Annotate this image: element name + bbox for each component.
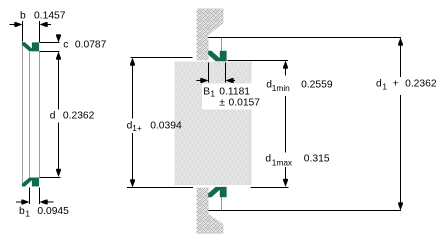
label d1+ 0.0394 [127, 120, 182, 133]
svg-text:0.2559: 0.2559 [301, 80, 333, 91]
dimension line d1 (right, vertical) [398, 38, 403, 46]
svg-text:±: ± [219, 97, 225, 108]
label d1min 0.2559 [266, 80, 333, 94]
label d1max 0.315 [265, 154, 329, 168]
svg-text:+: + [393, 79, 399, 90]
svg-text:1max: 1max [272, 157, 293, 167]
svg-text:0.0945: 0.0945 [37, 206, 69, 217]
dimension line b, left arrow [10, 22, 23, 27]
svg-text:0.2362: 0.2362 [405, 79, 437, 90]
dimension d arrow (points down) [56, 169, 61, 177]
bore line bottom (gray) [221, 198, 223, 211]
svg-text:0.0394: 0.0394 [150, 120, 182, 131]
label c 0.0787 [63, 40, 106, 51]
svg-text:0.0787: 0.0787 [75, 40, 107, 51]
bore line top (gray) [221, 38, 223, 51]
svg-text:B: B [203, 86, 210, 97]
extension line b right [39, 21, 41, 42]
housing bar top (stippled) [197, 9, 224, 61]
svg-text:1+: 1+ [132, 123, 142, 133]
B1 right arrow [226, 78, 236, 83]
B1 left arrow [196, 78, 208, 83]
dimension b1 right arrow [40, 200, 54, 205]
bottom seal (green) installed [208, 187, 226, 197]
svg-text:b: b [20, 11, 26, 22]
extension line d1 bottom [209, 210, 402, 212]
dimension c extension lines [40, 42, 60, 44]
svg-text:0.315: 0.315 [304, 154, 330, 165]
bottom seal cross-section (green, mirrored) [22, 178, 39, 187]
label d 0.2362 [50, 111, 95, 122]
housing bar bottom (stippled) [197, 188, 224, 234]
extension line d1max [251, 187, 289, 189]
label d1 + 0.2362 [376, 79, 437, 92]
label plus-minus 0.0157 [219, 97, 260, 108]
extension line d bottom [40, 177, 61, 179]
shaft cross-section block [175, 62, 252, 186]
white backing for B1 labels [202, 84, 261, 110]
dimension line d1min/d1max (vertical) [283, 61, 288, 69]
label b 0.1457 [20, 11, 66, 22]
svg-text:0.1457: 0.1457 [34, 11, 66, 22]
top seal cross-section (green) [22, 42, 39, 51]
svg-text:1: 1 [382, 82, 387, 92]
label B1 0.1181 [203, 86, 250, 98]
svg-text:1min: 1min [272, 83, 290, 93]
dimension line b, right arrow [40, 22, 52, 27]
extension line left top [131, 57, 193, 59]
seal ring outline lines (gray) [23, 45, 40, 184]
extension line d1min [228, 60, 289, 62]
svg-text:d: d [265, 154, 271, 165]
dimension c arrow top (points down) [56, 34, 61, 42]
svg-text:0.1181: 0.1181 [219, 86, 250, 97]
dimension line d1+0.0394 (left, vertical) [130, 58, 135, 66]
dimension c arrow bottom (points up) [56, 52, 61, 60]
svg-text:c: c [63, 40, 68, 51]
svg-text:1: 1 [25, 208, 30, 218]
svg-text:d: d [50, 111, 56, 122]
svg-text:d: d [376, 79, 382, 90]
extension line left bottom [127, 187, 193, 189]
label b1 0.0945 [19, 206, 69, 218]
extension line b left [22, 21, 24, 42]
B1 extension lines [208, 63, 210, 83]
extension line d1 top [209, 37, 402, 39]
svg-text:0.0157: 0.0157 [229, 97, 261, 108]
svg-text:1: 1 [210, 89, 215, 99]
extension lines b1 [29, 188, 31, 205]
top seal (green) installed [208, 51, 226, 62]
dimension b1 left arrow [16, 200, 30, 205]
svg-text:b: b [19, 206, 25, 217]
svg-text:0.2362: 0.2362 [63, 111, 95, 122]
dimension line d (vertical with text gap) [58, 53, 60, 110]
